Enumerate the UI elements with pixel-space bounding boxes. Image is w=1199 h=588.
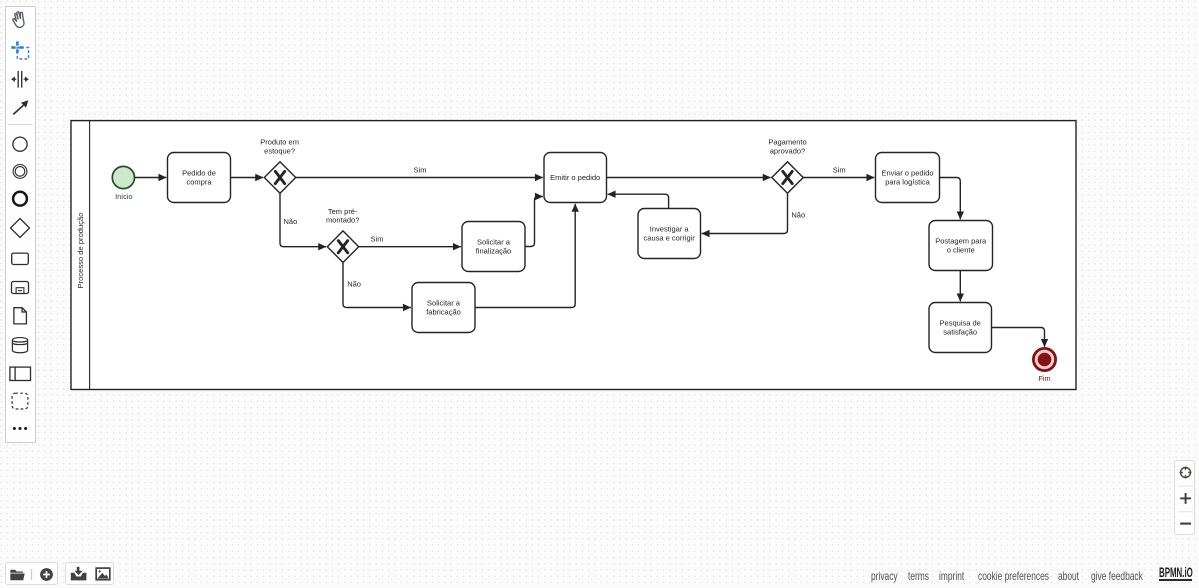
flow G3 → Enviar o pedido (Sim) xyxy=(804,166,875,178)
flow Postagem → Pesquisa xyxy=(959,271,961,302)
task "Postagem para o cliente" xyxy=(929,221,993,271)
svg-text:Postagem para: Postagem para xyxy=(935,237,987,246)
palette task xyxy=(11,253,28,264)
flow start → Pedido de compra xyxy=(135,177,167,179)
svg-text:Pesquisa de: Pesquisa de xyxy=(940,319,981,328)
svg-text:Pedido de: Pedido de xyxy=(182,169,216,178)
task "Investigar a causa e corrigir" xyxy=(638,209,701,259)
task "Solicitar a fabricação" xyxy=(412,283,475,333)
palette lasso tool xyxy=(11,41,28,59)
separator xyxy=(1178,485,1193,487)
svg-text:compra: compra xyxy=(186,177,212,186)
svg-text:finalização: finalização xyxy=(476,246,511,255)
pool "Processo de produção" xyxy=(71,121,1076,390)
svg-text:Produto em: Produto em xyxy=(260,138,299,147)
svg-text:causa e corrigir: causa e corrigir xyxy=(644,233,696,242)
palette more dots xyxy=(12,427,26,430)
export image button xyxy=(96,568,110,580)
svg-text:Processo de produção: Processo de produção xyxy=(76,213,85,289)
palette gateway xyxy=(10,218,29,237)
palette data store xyxy=(12,337,27,352)
reset zoom (crosshair) xyxy=(1179,467,1191,479)
svg-text:Não: Não xyxy=(791,211,805,220)
svg-text:o cliente: o cliente xyxy=(947,245,975,254)
flow Enviar o pedido → Postagem xyxy=(940,178,961,220)
task "Enviar o pedido para logística" xyxy=(876,153,940,203)
flow G1 → Emitir o pedido (Sim) xyxy=(296,166,543,178)
flow Pedido de compra → G1 xyxy=(231,177,263,179)
svg-text:para logística: para logística xyxy=(885,177,930,186)
task "Solicitar a finalização" xyxy=(462,222,525,272)
svg-text:Sim: Sim xyxy=(371,235,384,244)
svg-text:Não: Não xyxy=(347,280,361,289)
flow Solicitar a finalização → Emitir o pedido xyxy=(525,197,543,247)
palette participant xyxy=(9,367,30,380)
svg-text:Tem pré-: Tem pré- xyxy=(328,207,358,216)
flow Solicitar a fabricação → Emitir o pedido xyxy=(475,204,575,308)
palette separator xyxy=(8,123,33,125)
svg-text:Emitir o pedido: Emitir o pedido xyxy=(550,173,600,182)
palette global connect tool xyxy=(13,100,28,114)
task "Emitir o pedido" xyxy=(544,153,607,203)
flow G1 → G2 (Não) xyxy=(280,194,326,247)
flow G3 → Investigar a causa (Não) xyxy=(702,194,805,234)
palette subprocess xyxy=(11,281,28,293)
task "Pesquisa de satisfação" xyxy=(929,303,992,353)
palette intermediate event xyxy=(13,164,27,178)
palette end event xyxy=(13,191,27,205)
flow Emitir o pedido → G3 xyxy=(607,177,771,179)
svg-text:Investigar a: Investigar a xyxy=(650,225,690,234)
gateway G3 "Pagamento aprovado?" xyxy=(768,138,806,194)
gateway G1 "Produto em estoque?" xyxy=(260,138,299,194)
svg-text:aprovado?: aprovado? xyxy=(770,146,805,155)
flow Investigar a causa → Emitir o pedido xyxy=(608,194,669,208)
palette data object xyxy=(13,307,26,323)
open folder button xyxy=(10,569,24,580)
palette space tool xyxy=(11,70,29,87)
svg-text:Enviar o pedido: Enviar o pedido xyxy=(881,169,933,178)
gateway G2 "Tem pré-montado?" xyxy=(326,207,359,263)
palette hand tool xyxy=(11,10,25,28)
start event "Início" xyxy=(112,166,134,201)
zoom out xyxy=(1180,523,1191,525)
flow G2 → Solicitar a fabricação (Não) xyxy=(343,263,411,308)
svg-text:Solicitar a: Solicitar a xyxy=(477,238,511,247)
palette start event xyxy=(12,137,26,151)
task "Pedido de compra" xyxy=(168,153,231,203)
svg-text:fabricação: fabricação xyxy=(426,307,461,316)
palette group xyxy=(12,393,28,409)
svg-text:Sim: Sim xyxy=(833,166,846,175)
download button xyxy=(71,566,87,580)
svg-text:Início: Início xyxy=(115,192,132,201)
svg-text:Pagamento: Pagamento xyxy=(768,138,806,147)
svg-text:Não: Não xyxy=(284,217,298,226)
svg-text:montado?: montado? xyxy=(326,216,359,225)
svg-text:Fim: Fim xyxy=(1038,374,1050,383)
flow Pesquisa → Fim xyxy=(992,328,1045,347)
new diagram (plus) button xyxy=(40,568,53,581)
end event "Fim" (terminate) xyxy=(1033,348,1055,383)
svg-text:Sim: Sim xyxy=(414,166,427,175)
separator xyxy=(1178,511,1193,513)
zoom in xyxy=(1180,493,1191,504)
flow G2 → Solicitar a finalização (Sim) xyxy=(359,235,461,247)
separator xyxy=(30,569,32,580)
svg-text:estoque?: estoque? xyxy=(264,146,295,155)
svg-text:satisfação: satisfação xyxy=(943,327,977,336)
svg-text:Solicitar a: Solicitar a xyxy=(427,299,461,308)
